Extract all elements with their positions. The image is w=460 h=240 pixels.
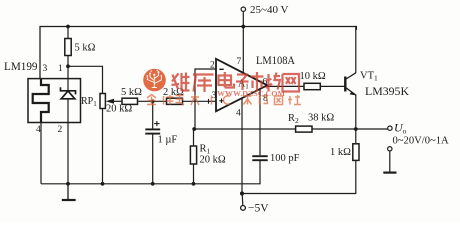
svg-text:10 kΩ: 10 kΩ <box>300 71 326 82</box>
svg-text:5 kΩ: 5 kΩ <box>121 87 142 98</box>
wire 100pF bottom to ground rail <box>259 161 261 184</box>
wire -5V terminal stub <box>241 194 244 206</box>
wire op-amp pin 4 to -5V line <box>241 98 243 194</box>
resistor 10k (horizontal) <box>304 83 320 89</box>
wire inverting input feedback vertical <box>195 69 216 129</box>
wire +V terminal stub <box>242 12 244 27</box>
node ground/1uF <box>151 182 155 186</box>
node R1/R2/inverting <box>192 127 196 131</box>
ground symbol (main) <box>67 184 69 200</box>
最 <box>176 95 184 97</box>
svg-text:LM395K: LM395K <box>365 84 409 98</box>
电 <box>219 76 232 86</box>
terminal U0 output <box>388 126 392 130</box>
wire op-amp output to 10k <box>267 85 305 87</box>
wire pin1 node to RP1 top <box>68 66 103 93</box>
wire VT1 collector vertical <box>355 27 357 74</box>
wire 1k bottom to -5V line <box>242 160 356 193</box>
transistor VT1 <box>345 73 356 95</box>
op-amp A1 LM108A <box>216 59 267 112</box>
watermark logo circle <box>143 69 166 92</box>
svg-text:R2: R2 <box>288 113 299 125</box>
wire 1uF top connection <box>152 101 154 128</box>
resistor R1 20k <box>190 146 196 164</box>
node rail/pin7/+V <box>241 25 245 29</box>
wire R2 to output node <box>312 128 388 130</box>
watermark slogan row <box>147 95 301 106</box>
svg-text:3: 3 <box>43 64 48 74</box>
wire zener anode to pin 2 to ground rail <box>67 99 69 184</box>
node rail/5k <box>66 25 70 29</box>
terminal -5V <box>241 206 246 211</box>
resistor 2k (horizontal) <box>167 98 183 104</box>
svg-text:Uo: Uo <box>394 121 407 136</box>
svg-text:−5V: −5V <box>248 203 269 215</box>
wire 5k to 2k chain <box>138 100 167 102</box>
resistor 1k <box>353 144 359 161</box>
svg-text:100 pF: 100 pF <box>270 153 300 164</box>
plus sign non-inverting input <box>209 99 224 104</box>
wire 5k top connection <box>67 27 69 39</box>
大 <box>191 96 199 98</box>
wire feedback line R2 row <box>195 128 296 130</box>
svg-text:20 kΩ: 20 kΩ <box>200 155 226 166</box>
terminal +25~40V <box>241 7 245 11</box>
resistor R2 38k <box>296 126 312 132</box>
LM199 box <box>28 79 81 123</box>
全 <box>147 95 156 99</box>
wire VT1 emitter vertical to output node <box>355 95 357 130</box>
node ground/pin2 <box>66 182 70 186</box>
网 <box>275 96 283 105</box>
维 <box>173 75 179 90</box>
库 <box>193 73 214 75</box>
svg-text:1: 1 <box>58 64 63 74</box>
node ground/RP1 <box>101 182 105 186</box>
node output/emitter/R2/1k <box>354 127 358 131</box>
svg-text:LM108A: LM108A <box>256 53 295 67</box>
svg-text:2: 2 <box>58 125 63 135</box>
svg-text:VT1: VT1 <box>360 70 378 82</box>
wire RP1 bottom to ground rail <box>102 109 104 184</box>
wire 2k to op-amp pin 3 <box>183 100 217 102</box>
svg-text:RP1: RP1 <box>81 96 97 108</box>
node 5k-2k/1uF <box>151 99 155 103</box>
potentiometer RP1 <box>100 94 105 109</box>
wire R1 bottom to ground rail <box>193 164 195 184</box>
站 <box>289 96 291 105</box>
svg-text:4: 4 <box>36 125 41 135</box>
svg-text:1 µF: 1 µF <box>158 135 178 146</box>
zener diode inside LM199 <box>61 87 76 99</box>
svg-text:2: 2 <box>210 60 215 70</box>
wire R1 top <box>193 129 195 146</box>
wire 1k top <box>355 129 357 144</box>
capacitor 1uF (electrolytic) <box>145 129 160 133</box>
wire zener cathode (pin 1 into LM199) <box>67 66 69 91</box>
resistor 5k (top left) <box>65 39 71 56</box>
node ground/R1 <box>192 182 196 186</box>
svg-text:1 kΩ: 1 kΩ <box>330 147 351 158</box>
node pin1/5k/RP1 <box>66 64 70 68</box>
svg-text:7: 7 <box>237 57 242 67</box>
wire 5k bottom to pin1 node <box>67 56 69 67</box>
svg-text:0~20V/0~1A: 0~20V/0~1A <box>393 136 450 147</box>
node -5V junction <box>240 191 244 195</box>
球 <box>163 96 165 105</box>
wire op-amp pin 8 to 100pF <box>259 89 261 156</box>
resistor 5k (horizontal) <box>122 98 138 104</box>
场 <box>267 74 269 91</box>
I <box>211 96 213 105</box>
svg-text:20 kΩ: 20 kΩ <box>106 104 132 115</box>
购 <box>259 96 261 105</box>
wire 1uF bottom to ground rail <box>152 135 154 184</box>
子 <box>237 73 248 75</box>
采 <box>244 95 252 97</box>
svg-text:6: 6 <box>263 78 268 88</box>
watermark text 维库电子市场网 (stroke approximation) <box>172 72 300 92</box>
市 <box>256 72 258 76</box>
wire ground rail <box>41 183 261 185</box>
terminal output return with ground <box>388 147 392 151</box>
网 <box>283 74 300 92</box>
svg-text:38 kΩ: 38 kΩ <box>308 113 334 124</box>
wire RP1 wiper to 5k <box>110 100 122 102</box>
capacitor 100pF <box>252 156 267 160</box>
minus sign inverting input <box>219 68 223 70</box>
svg-text:5 kΩ: 5 kΩ <box>75 43 96 54</box>
svg-text:4: 4 <box>236 109 241 119</box>
wire top rail +V <box>40 27 356 79</box>
heater element inside LM199 <box>33 79 49 123</box>
svg-text:25~40 V: 25~40 V <box>250 4 289 16</box>
C <box>223 96 230 104</box>
wire LM199 pin 4 down to ground rail <box>40 123 42 184</box>
wire 10k to VT1 base <box>320 85 345 87</box>
svg-text:LM199: LM199 <box>4 59 38 73</box>
wire op-amp pin 7 supply <box>242 27 244 73</box>
